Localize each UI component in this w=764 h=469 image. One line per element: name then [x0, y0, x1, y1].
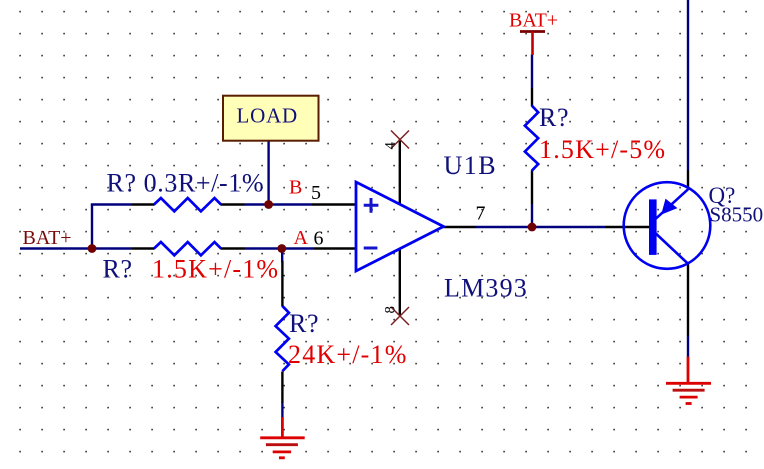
wire from LOAD down to node B: [267, 139, 269, 205]
svg-text:8: 8: [383, 306, 399, 314]
svg-text:4: 4: [383, 142, 399, 150]
wire below R3 to output junction: [531, 204, 533, 227]
svg-text:BAT+: BAT+: [509, 9, 558, 31]
svg-text:LM393: LM393: [444, 274, 528, 303]
svg-text:1.5K+/-1%: 1.5K+/-1%: [152, 254, 279, 283]
resistor R3 body: [525, 106, 538, 171]
svg-text:S8550: S8550: [710, 203, 764, 227]
junction node A: [277, 244, 286, 253]
power port BAT+ stem: [531, 32, 534, 56]
resistor R4 bottom pin: [281, 372, 283, 404]
resistor R3 bottom pin: [531, 171, 533, 205]
resistor R1 left pin: [132, 203, 155, 205]
op-amp pin 6: [314, 247, 356, 249]
wire row B from R1 to pin 5: [245, 203, 313, 205]
wire row B to resistor R1: [91, 203, 132, 205]
LOAD box: [223, 96, 319, 141]
svg-text:5: 5: [311, 182, 321, 204]
svg-text:LOAD: LOAD: [237, 104, 299, 128]
op-amp pin 4: [399, 140, 401, 205]
wire output row pin7 to transistor: [476, 226, 605, 228]
transistor collector line: [656, 234, 688, 264]
op-amp pin 5: [312, 203, 356, 205]
transistor base bar: [649, 199, 657, 255]
svg-text:BAT+: BAT+: [23, 227, 72, 249]
transistor emitter arrow: [661, 199, 677, 215]
no-ERC cross on pin 8: [391, 307, 409, 325]
svg-text:1.5K+/-5%: 1.5K+/-5%: [539, 135, 666, 164]
wire BAT+ stub to left junction: [20, 247, 92, 249]
no-ERC cross on pin 4: [391, 131, 409, 149]
svg-text:R?: R?: [103, 254, 133, 283]
junction node B: [264, 200, 273, 209]
svg-text:R?: R?: [539, 103, 569, 132]
ground symbol below transistor: [666, 357, 711, 404]
svg-text:R? 0.3R+/-1%: R? 0.3R+/-1%: [107, 168, 265, 197]
wire top right rail down to emitter: [687, 0, 689, 170]
op-amp U1B triangle: [356, 182, 444, 271]
junction output node: [528, 223, 537, 232]
wire below R4 to ground: [281, 403, 283, 418]
svg-text:B: B: [289, 176, 302, 198]
op-amp plus input marker: [364, 198, 379, 213]
transistor collector pin: [687, 263, 689, 335]
wire row A from junction to R2: [92, 247, 132, 249]
op-amp pin 7: [444, 226, 477, 228]
transistor emitter pin: [687, 170, 689, 190]
resistor R1 right pin: [221, 203, 245, 205]
wire vertical junction up to row B: [91, 205, 93, 250]
transistor base pin: [605, 226, 650, 228]
wire below BAT+ port to R3: [531, 55, 533, 89]
resistor R3 top pin: [531, 88, 533, 106]
transistor Q1 circle: [624, 182, 711, 269]
svg-text:A: A: [294, 227, 309, 249]
svg-text:24K+/-1%: 24K+/-1%: [288, 340, 408, 369]
resistor R2 left pin: [132, 247, 155, 249]
svg-text:U1B: U1B: [444, 151, 498, 180]
resistor R1 body: [154, 198, 221, 211]
resistor R4 top pin: [281, 261, 283, 307]
op-amp minus input marker: [364, 247, 378, 250]
resistor R4 body: [276, 306, 289, 371]
junction at left BAT+ node: [88, 244, 97, 253]
svg-text:6: 6: [314, 227, 324, 249]
ground symbol below R4: [260, 417, 305, 458]
resistor R2 right pin: [221, 247, 246, 249]
wire row A from R2 to pin 6: [245, 247, 314, 249]
resistor R2 body: [154, 242, 221, 255]
svg-text:R?: R?: [289, 309, 319, 338]
wire collector to ground: [687, 336, 689, 358]
power port BAT+ bar: [520, 30, 545, 33]
svg-text:7: 7: [476, 203, 486, 225]
op-amp pin 8: [399, 249, 401, 316]
transistor emitter line: [656, 189, 688, 218]
wire node A down to R4: [281, 249, 283, 263]
